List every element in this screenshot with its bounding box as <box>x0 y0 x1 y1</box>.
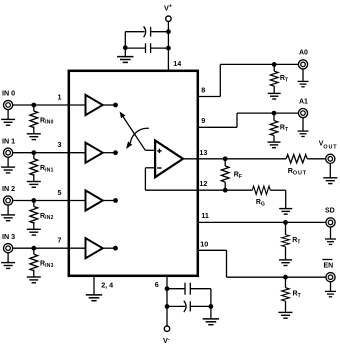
svg-text:10: 10 <box>200 239 208 248</box>
svg-text:IN 2: IN 2 <box>2 184 15 193</box>
svg-text:1: 1 <box>58 92 62 101</box>
svg-text:9: 9 <box>201 116 205 125</box>
svg-text:2, 4: 2, 4 <box>101 281 113 290</box>
svg-text:A0: A0 <box>299 50 308 57</box>
svg-text:5: 5 <box>58 188 62 197</box>
svg-text:8: 8 <box>201 85 205 94</box>
svg-text:IN 1: IN 1 <box>2 136 15 145</box>
svg-text:3: 3 <box>58 140 62 149</box>
svg-text:EN: EN <box>324 262 334 269</box>
svg-text:6: 6 <box>155 280 159 289</box>
svg-text:14: 14 <box>173 59 181 68</box>
svg-text:12: 12 <box>199 179 207 188</box>
svg-text:SD: SD <box>325 208 335 215</box>
svg-text:A1: A1 <box>299 98 308 105</box>
svg-text:IN 3: IN 3 <box>2 232 15 241</box>
svg-text:IN 0: IN 0 <box>2 89 15 98</box>
svg-text:7: 7 <box>58 236 62 245</box>
svg-text:11: 11 <box>201 211 209 220</box>
svg-text:13: 13 <box>199 148 207 157</box>
